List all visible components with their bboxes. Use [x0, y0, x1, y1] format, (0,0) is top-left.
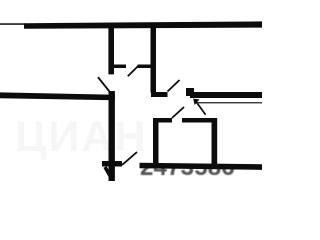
wall top-room right vertical — [151, 28, 157, 93]
door leaf balcony bottom — [122, 152, 137, 165]
svg-text:ЦИАН: ЦИАН — [15, 113, 147, 161]
door leaf bottom-room — [172, 107, 184, 118]
door leaf entrance — [168, 80, 180, 92]
wall thin line right of entrance — [197, 102, 262, 103]
wall bottom-room left vertical — [153, 118, 159, 168]
door leaf left-room — [98, 77, 109, 91]
wall cross bar at bottom of central vertical — [102, 161, 122, 167]
wall thin top-left edge — [0, 23, 25, 25]
wall corridor piece right of top-room — [151, 92, 168, 97]
entrance arrow — [193, 99, 205, 115]
wall bottom exterior — [140, 163, 263, 170]
wall top exterior — [24, 21, 262, 28]
door leaf folded below cross bar — [105, 167, 112, 179]
wall stub left of top-room door — [114, 65, 127, 69]
wall top-room left vertical — [108, 27, 114, 74]
door leaf top-room — [128, 66, 139, 77]
wall bottom-room top left piece — [153, 118, 172, 123]
wall stub right of top-room door — [138, 65, 152, 69]
wall long central vertical — [109, 91, 115, 181]
wall corridor right exterior — [190, 92, 262, 98]
wall bottom-room top right piece — [182, 118, 216, 123]
watermark id digits — [140, 154, 235, 181]
wall left-room bottom — [0, 92, 115, 100]
wall bottom-room right vertical — [212, 118, 218, 168]
wall entrance jamb cap — [186, 88, 194, 96]
watermark big faint letters — [15, 113, 147, 161]
